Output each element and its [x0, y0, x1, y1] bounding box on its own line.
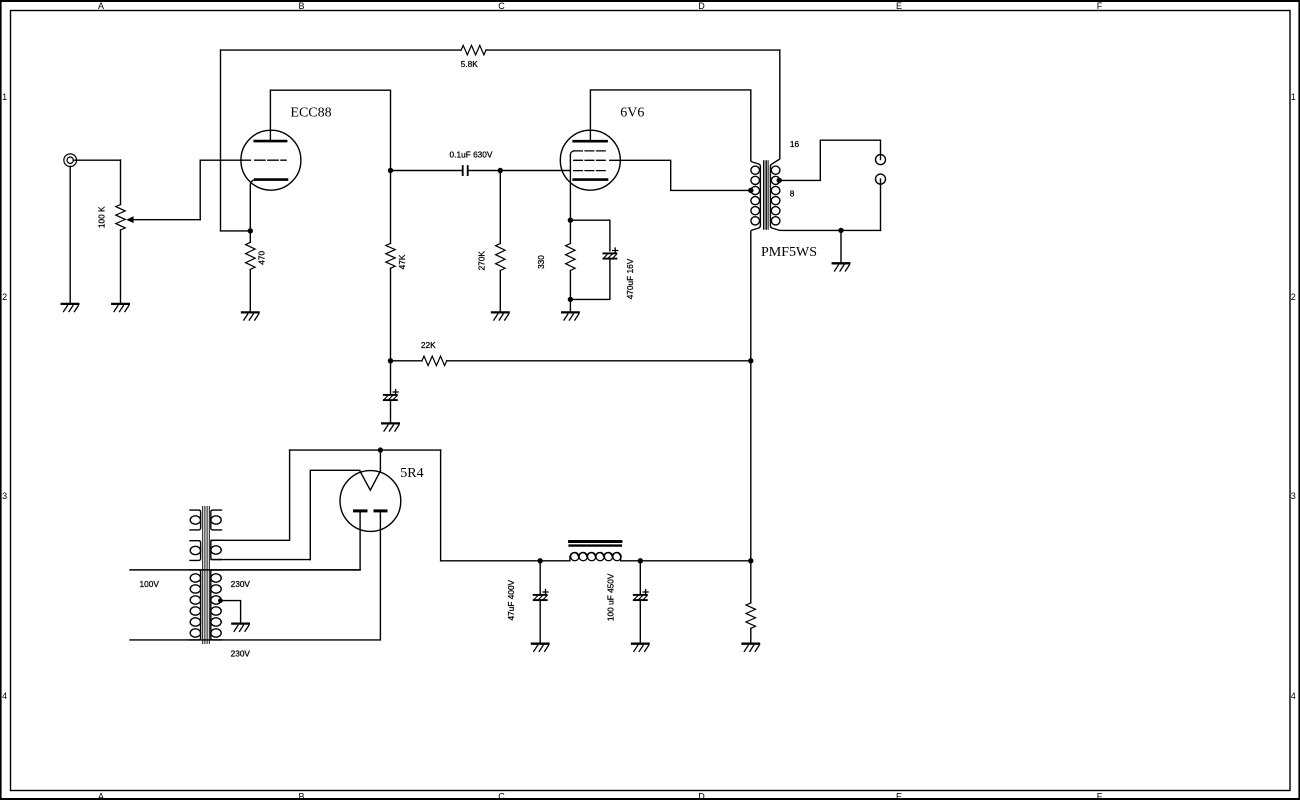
svg-text:22K: 22K — [421, 340, 436, 350]
svg-text:47K: 47K — [397, 254, 407, 269]
svg-text:230V: 230V — [231, 579, 251, 589]
svg-text:D: D — [698, 791, 705, 800]
svg-text:3: 3 — [1291, 491, 1296, 501]
svg-text:4: 4 — [1291, 691, 1296, 701]
svg-text:100V: 100V — [140, 579, 160, 589]
svg-text:ECC88: ECC88 — [290, 106, 331, 121]
svg-text:C: C — [498, 1, 505, 11]
svg-text:F: F — [1097, 1, 1103, 11]
svg-text:2: 2 — [1291, 292, 1296, 302]
svg-text:E: E — [896, 1, 902, 11]
svg-text:5R4: 5R4 — [400, 466, 423, 481]
svg-text:100 K: 100 K — [96, 206, 106, 228]
svg-text:330: 330 — [536, 255, 546, 269]
svg-text:A: A — [98, 1, 104, 11]
svg-text:D: D — [698, 1, 705, 11]
svg-text:B: B — [298, 791, 304, 800]
svg-text:470uF 16V: 470uF 16V — [625, 258, 635, 299]
svg-text:5.8K: 5.8K — [461, 59, 479, 69]
svg-text:0.1uF 630V: 0.1uF 630V — [450, 149, 493, 159]
svg-text:1: 1 — [2, 92, 7, 102]
svg-text:4: 4 — [2, 691, 7, 701]
svg-text:270K: 270K — [477, 251, 487, 271]
svg-text:PMF5WS: PMF5WS — [761, 245, 817, 260]
svg-text:B: B — [298, 1, 304, 11]
svg-text:100 uF 450V: 100 uF 450V — [605, 573, 615, 621]
svg-text:2: 2 — [2, 292, 7, 302]
svg-text:470: 470 — [257, 250, 267, 264]
svg-text:6V6: 6V6 — [620, 106, 644, 121]
svg-text:C: C — [498, 791, 505, 800]
svg-text:8: 8 — [790, 188, 795, 198]
svg-text:3: 3 — [2, 491, 7, 501]
svg-text:1: 1 — [1291, 92, 1296, 102]
svg-text:230V: 230V — [231, 648, 251, 658]
svg-text:F: F — [1097, 791, 1103, 800]
svg-text:A: A — [98, 791, 104, 800]
svg-text:47uF 400V: 47uF 400V — [506, 579, 516, 620]
svg-text:16: 16 — [790, 139, 800, 149]
svg-text:E: E — [896, 791, 902, 800]
